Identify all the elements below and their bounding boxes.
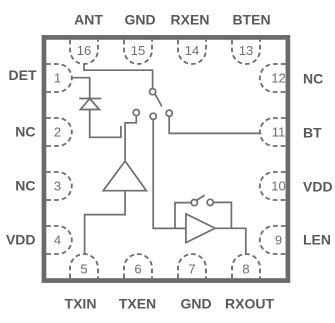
svg-text:2: 2 <box>54 125 61 140</box>
bypass switch arm <box>197 195 205 200</box>
throw contact RX <box>150 113 156 119</box>
wire bypass right <box>213 202 231 228</box>
wire bypass left <box>175 203 191 229</box>
pad 16 <box>70 40 98 64</box>
svg-text:5: 5 <box>80 261 87 276</box>
pad 8 <box>232 254 260 278</box>
pad 3 <box>46 172 72 200</box>
svg-text:BTEN: BTEN <box>232 12 270 28</box>
svg-text:VDD: VDD <box>303 179 333 195</box>
svg-text:BT: BT <box>303 125 322 141</box>
svg-text:3: 3 <box>54 179 61 194</box>
svg-text:8: 8 <box>242 261 249 276</box>
svg-text:9: 9 <box>275 233 282 248</box>
switch pole contact <box>150 89 156 95</box>
svg-text:DET: DET <box>9 67 37 83</box>
pad 13 <box>232 40 260 64</box>
svg-text:RXOUT: RXOUT <box>225 296 274 312</box>
bypass contact left <box>191 200 197 206</box>
wire RX throw to amp input <box>153 119 186 228</box>
svg-text:RXEN: RXEN <box>171 12 210 28</box>
pad 12 <box>260 64 286 92</box>
op-amp RX (triangle right) <box>186 214 215 243</box>
svg-text:15: 15 <box>131 43 145 58</box>
svg-text:LEN: LEN <box>303 232 331 248</box>
bypass contact right <box>207 199 213 205</box>
pad 1 <box>46 64 72 92</box>
svg-text:VDD: VDD <box>6 231 36 247</box>
pad 6 <box>124 254 152 278</box>
svg-text:TXEN: TXEN <box>119 296 156 312</box>
wire diode to TX output tap <box>90 110 121 138</box>
svg-text:GND: GND <box>124 12 155 28</box>
svg-text:6: 6 <box>134 261 141 276</box>
svg-text:TXIN: TXIN <box>65 296 97 312</box>
throw contact BT <box>166 110 172 116</box>
svg-text:12: 12 <box>271 71 285 86</box>
svg-text:NC: NC <box>15 123 35 139</box>
svg-text:14: 14 <box>185 43 199 58</box>
svg-text:NC: NC <box>303 71 323 87</box>
wire BT throw to pin 11 <box>169 116 261 133</box>
wire TX throw to amp output <box>125 116 136 161</box>
svg-text:1: 1 <box>54 71 61 86</box>
pad 10 <box>260 172 286 200</box>
svg-text:4: 4 <box>54 233 61 248</box>
pad 2 <box>46 118 72 146</box>
svg-text:13: 13 <box>239 43 253 58</box>
package outline <box>44 37 288 280</box>
wire ANT to switch pole <box>84 64 153 89</box>
svg-text:ANT: ANT <box>74 12 103 28</box>
pad 7 <box>178 254 206 278</box>
svg-text:10: 10 <box>271 179 285 194</box>
pad 4 <box>46 226 72 254</box>
throw contact TX <box>133 110 139 116</box>
svg-text:GND: GND <box>180 296 211 312</box>
pad 5 <box>70 254 98 278</box>
wire pin1 DET to diode <box>72 78 90 99</box>
switch arm <box>155 94 162 106</box>
pad 11 <box>260 118 286 146</box>
wire TX amp input to pin 5 <box>85 191 126 255</box>
svg-text:11: 11 <box>272 125 286 140</box>
pad 9 <box>260 226 286 254</box>
diode D1 <box>79 99 101 110</box>
svg-text:7: 7 <box>188 261 195 276</box>
pad 15 <box>124 40 152 64</box>
svg-text:16: 16 <box>77 43 91 58</box>
svg-text:NC: NC <box>15 178 35 194</box>
pad 14 <box>178 40 206 64</box>
wire RX amp output to pin 8 <box>215 228 246 255</box>
op-amp TX (triangle up) <box>103 161 146 191</box>
